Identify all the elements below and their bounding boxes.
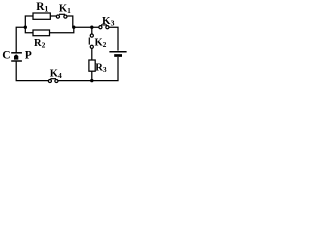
svg-text:R2: R2 [34, 38, 46, 50]
svg-text:K2: K2 [95, 37, 107, 49]
svg-text:R3: R3 [95, 62, 107, 74]
svg-text:C: C [2, 49, 10, 61]
svg-text:K1: K1 [59, 3, 71, 15]
svg-text:K4: K4 [50, 68, 62, 80]
svg-text:P: P [25, 50, 32, 62]
